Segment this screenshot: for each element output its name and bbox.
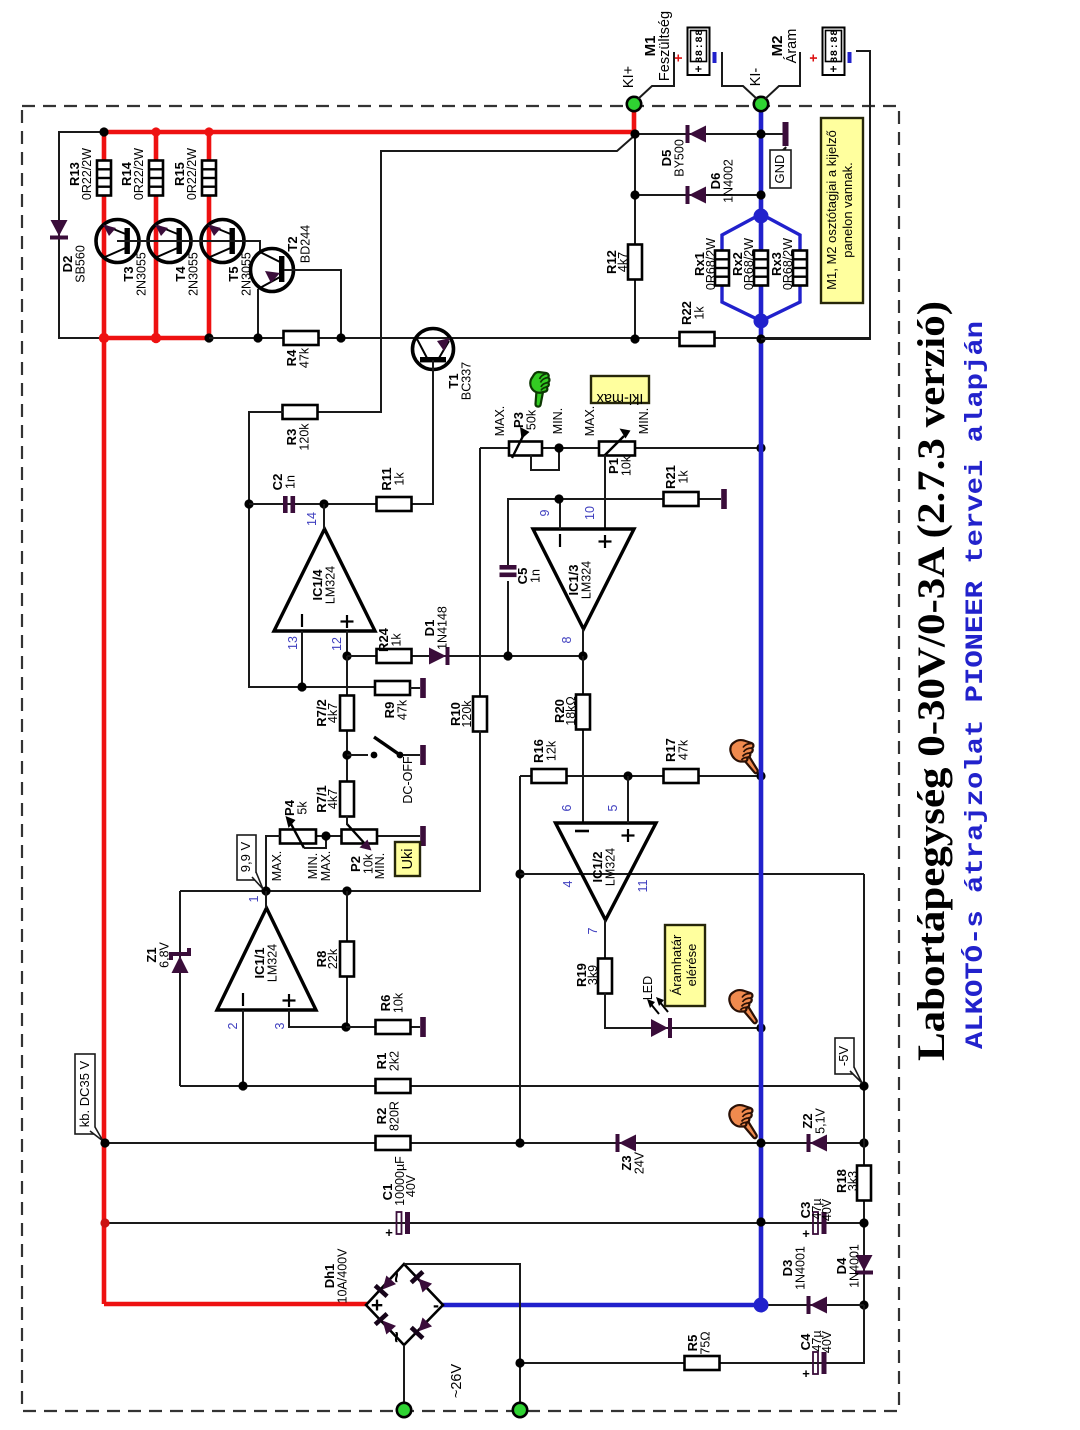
ground stub DC-OFF (420, 745, 426, 765)
svg-text:LM324: LM324 (580, 561, 594, 599)
svg-text:6,8V: 6,8V (158, 941, 172, 967)
op-amp IC1/1 LM324 (217, 908, 316, 1010)
svg-text:6: 6 (560, 804, 574, 811)
wire blue bottom to bridge (442, 1303, 761, 1308)
resistor R12 4k7 (604, 245, 642, 280)
svg-text:Áramhatár: Áramhatár (669, 934, 684, 995)
wire base link T3-T5 to T2 (117, 241, 260, 253)
svg-text:DC-OFF: DC-OFF (401, 756, 415, 804)
wire R1 row (180, 1085, 864, 1087)
svg-text:LM324: LM324 (604, 848, 618, 886)
svg-text:14: 14 (305, 512, 319, 526)
wire D1 row (347, 655, 583, 657)
svg-text:LM324: LM324 (324, 566, 338, 604)
pin 13 (301, 631, 303, 687)
svg-text:1: 1 (247, 895, 261, 902)
wire red column T4 (154, 132, 159, 338)
wire R7 chain (346, 656, 348, 820)
resistor R13 0R22/2W (67, 148, 111, 200)
diode D1 1N4148 (422, 606, 450, 665)
wire black top-left + D2 branch (59, 132, 104, 338)
callout kb. DC35 V (75, 1054, 103, 1141)
svg-text:elérése: elérése (684, 944, 699, 987)
svg-text:LM324: LM324 (266, 944, 280, 982)
meter M1 display (688, 28, 710, 76)
wire C2 row (249, 503, 377, 505)
svg-text:MAX.: MAX. (319, 851, 333, 882)
svg-text:1n: 1n (529, 569, 543, 583)
terminal KI+ (627, 97, 641, 111)
svg-text:4: 4 (561, 880, 575, 887)
svg-text:+: + (802, 1226, 810, 1241)
potentiometer P2 10k (342, 816, 378, 874)
resistor R24 1k (376, 627, 412, 663)
capacitor C1 10000uF 40V (380, 1156, 418, 1240)
wire blue KI- main (759, 104, 764, 1305)
svg-text:+: + (371, 1294, 383, 1317)
svg-text:-: - (433, 1295, 439, 1315)
wire pin1 row (180, 745, 480, 891)
note box M1 M2 osztotagjai (821, 118, 863, 303)
svg-text:2k2: 2k2 (388, 1051, 402, 1071)
ground stub R9 (420, 678, 426, 698)
svg-text:0R68/2W: 0R68/2W (781, 238, 795, 290)
resistor R21 1k (663, 465, 699, 506)
svg-text:5k: 5k (296, 801, 310, 815)
terminal KI- (754, 97, 768, 111)
wire R21 row / pin9 node (508, 499, 721, 567)
potentiometer P1 10k (599, 429, 635, 477)
svg-text:+: + (670, 54, 686, 62)
svg-text:MAX.: MAX. (270, 851, 284, 882)
svg-text:Feszültség: Feszültség (657, 11, 673, 81)
svg-text:panelon vannak.: panelon vannak. (840, 162, 855, 257)
wire D5 row (634, 133, 786, 135)
svg-text:MIN.: MIN. (306, 853, 320, 879)
svg-text:10k: 10k (620, 455, 634, 476)
op-amp IC1/3 LM324 (533, 529, 634, 629)
diode Z2 5,1V (800, 1107, 828, 1152)
svg-text:10A/400V: 10A/400V (336, 1248, 350, 1304)
capacitor C4 47u 40V (798, 1330, 834, 1381)
resistor R8 22k (314, 891, 354, 1027)
wire red top bus (102, 130, 636, 135)
svg-text:10k: 10k (392, 992, 406, 1013)
svg-text:12k: 12k (545, 740, 559, 761)
wire D3 row (761, 1304, 864, 1306)
svg-text:1n: 1n (284, 475, 298, 489)
svg-text:120k: 120k (460, 700, 474, 728)
svg-text:820R: 820R (388, 1101, 402, 1131)
resistor Rx2 0R68/2W (730, 238, 768, 290)
transistor T5 2N3055 (201, 220, 254, 296)
svg-text:3k9: 3k9 (586, 965, 600, 985)
pin 2 (242, 1010, 244, 1086)
wire KI+ to meter M1 (638, 52, 674, 99)
resistor R6 10k (376, 992, 411, 1034)
svg-text:0R68/2W: 0R68/2W (704, 238, 718, 290)
bridge rectifier Dh1 10A/400V (322, 1248, 443, 1345)
wire R16 corner down (519, 776, 521, 1143)
hand orange pointer LED node (729, 990, 756, 1023)
callout GND (770, 147, 791, 188)
wire D6 row (635, 194, 761, 196)
svg-text:12: 12 (330, 637, 344, 651)
pin 12 (346, 631, 348, 656)
capacitor C3 47u 40V (798, 1198, 834, 1241)
meter M2 display (823, 28, 845, 76)
svg-text:1k: 1k (390, 633, 404, 647)
capacitor C5 1n (500, 565, 543, 656)
potentiometer P4 5k (280, 799, 326, 848)
pin 7 (604, 920, 606, 959)
svg-text:120k: 120k (298, 423, 312, 451)
svg-text:MIN.: MIN. (551, 408, 565, 434)
svg-text:~26V: ~26V (449, 1364, 465, 1399)
svg-text:9: 9 (538, 509, 552, 516)
diode D5 BY500 (659, 125, 706, 177)
resistor R7/1 4k7 (314, 782, 354, 817)
transistor T2 BD244 (251, 225, 313, 292)
svg-text:3k3: 3k3 (846, 1171, 860, 1191)
svg-text:+: + (385, 1225, 393, 1240)
svg-text:Labortápegység 0-30V/0-3A (2.7: Labortápegység 0-30V/0-3A (2.7.3 verzió) (910, 301, 953, 1061)
pin 9 (559, 499, 561, 529)
terminal AC2 (513, 1403, 527, 1417)
resistor R22 1k (679, 301, 715, 346)
svg-text:88:88: 88:88 (694, 29, 706, 63)
resistor R1 2k2 (374, 1051, 411, 1093)
svg-text:+: + (827, 65, 841, 72)
wire P3-P1 row (480, 447, 761, 449)
svg-text:~: ~ (386, 1271, 408, 1283)
svg-text:Áram: Áram (783, 29, 800, 64)
svg-text:2N3055: 2N3055 (135, 252, 149, 296)
resistor R7/2 4k7 (314, 696, 354, 731)
ground stub R21 (721, 489, 727, 509)
ground stub P2 (420, 826, 426, 846)
svg-text:LED: LED (641, 976, 655, 1000)
svg-text:47k: 47k (298, 347, 312, 368)
hand green pointer (530, 372, 549, 407)
svg-text:40V: 40V (404, 1174, 418, 1197)
note box Aramhatar eларése (665, 925, 705, 1006)
svg-text:0R68/2W: 0R68/2W (742, 238, 756, 290)
wire C1 row (105, 1222, 864, 1224)
wire R2 row (105, 1142, 864, 1144)
pin 1 (265, 891, 267, 908)
svg-text:40V: 40V (820, 1198, 834, 1221)
wire P1 wiper to pin 10 (604, 455, 606, 529)
resistor R3 120k (283, 405, 318, 451)
resistor R4 47k (284, 331, 319, 368)
svg-text:M1, M2 osztótagjai a kijelző: M1, M2 osztótagjai a kijelző (824, 130, 839, 290)
wire red KI+ stub (632, 104, 637, 134)
svg-text:BC337: BC337 (460, 362, 474, 400)
svg-text:88:88: 88:88 (829, 29, 841, 63)
Rx divider diamond blue (722, 214, 761, 252)
svg-text:MIN.: MIN. (373, 853, 387, 879)
wire bus to M2 column (761, 51, 870, 339)
svg-text:40V: 40V (820, 1330, 834, 1353)
svg-text:13: 13 (286, 636, 300, 650)
LED (641, 976, 670, 1038)
terminal AC1 (397, 1403, 411, 1417)
svg-text:SB560: SB560 (74, 245, 88, 283)
pin 3 (289, 1010, 346, 1027)
diode Z3 24V (618, 1134, 647, 1174)
wire T2 base right and down to bus (284, 270, 341, 338)
wire R16-R17 row (520, 775, 761, 777)
svg-text:9,9 V: 9,9 V (238, 841, 253, 872)
pin 14 (323, 504, 325, 529)
resistor R19 3k9 (574, 959, 612, 994)
transistor T4 2N3055 (148, 220, 201, 296)
wire red bottom run to bridge (104, 1302, 368, 1307)
callout 9,9 V (237, 835, 263, 889)
svg-text:0R22/2W: 0R22/2W (80, 148, 94, 200)
svg-text:50k: 50k (525, 409, 539, 430)
wire bridge AC top to right column (404, 1264, 520, 1404)
wire P3 left down to R10 (479, 448, 481, 697)
resistor R16 12k (531, 739, 567, 783)
wire KI+ node column (634, 134, 636, 339)
resistor Rx3 0R68/2W (769, 238, 807, 290)
wire red column T5 (207, 132, 212, 338)
wire -5V column (863, 874, 865, 1363)
resistor R11 1k (377, 467, 412, 511)
wire C4 row (520, 1305, 864, 1363)
node A top bus junctions (99, 127, 108, 136)
wire R9 right to ground stub (410, 687, 420, 689)
svg-text:KI-: KI- (748, 68, 764, 87)
wire M1 to KI- (722, 52, 757, 99)
potentiometer P3 50k (509, 409, 559, 470)
svg-text:5,1V: 5,1V (814, 1107, 828, 1133)
wire bridge AC bottom down (403, 1345, 405, 1404)
svg-text:47k: 47k (396, 699, 410, 720)
wire P-row (266, 835, 280, 837)
op-amp IC1/2 LM324 (556, 823, 657, 920)
svg-text:1k: 1k (693, 306, 707, 320)
svg-text:MIN.: MIN. (637, 408, 651, 434)
svg-text:KI+: KI+ (621, 66, 637, 88)
svg-text:1k: 1k (393, 472, 407, 486)
wire IC1/2 supply row (520, 873, 864, 875)
svg-text:8: 8 (560, 636, 574, 643)
resistor R14 0R22/2W (119, 148, 163, 200)
wire T2 emitter down to bus (257, 289, 259, 338)
svg-text:4k7: 4k7 (326, 703, 340, 723)
svg-text:1k: 1k (677, 470, 691, 484)
svg-text:5: 5 (606, 804, 620, 811)
svg-text:1N4001: 1N4001 (848, 1244, 862, 1288)
svg-text:11: 11 (636, 879, 650, 892)
resistor R10 120k (448, 697, 487, 892)
resistor R20 18k (552, 656, 590, 823)
svg-text:+: + (805, 54, 821, 62)
resistor R5 75ohm (685, 1331, 720, 1370)
resistor R2 820R (374, 1101, 411, 1150)
svg-text:1N4148: 1N4148 (436, 606, 450, 650)
wire red emitter bus (104, 336, 211, 341)
resistor R17 47k (663, 738, 699, 783)
svg-text:2N3055: 2N3055 (187, 252, 201, 296)
resistor R15 0R22/2W (172, 148, 216, 200)
callout -5V (835, 1038, 862, 1083)
svg-text:+: + (692, 65, 706, 72)
wire red column T3 (102, 132, 107, 1304)
svg-text:2: 2 (226, 1022, 240, 1029)
svg-text:3: 3 (273, 1022, 287, 1029)
capacitor C2 1n (270, 474, 298, 513)
svg-text:+: + (802, 1366, 810, 1381)
ground stub D5 (783, 122, 789, 146)
resistor R9 47k (375, 681, 410, 720)
wire feedback from output node to R3 (318, 136, 634, 412)
svg-text:-5V: -5V (836, 1046, 851, 1067)
svg-text:BY500: BY500 (673, 139, 687, 177)
transistor T1 BC337 (413, 329, 474, 401)
hand orange pointer Z3 node (729, 1105, 756, 1138)
wire R3 left to C2 node (249, 412, 376, 687)
resistor R18 3k3 (834, 1166, 871, 1201)
svg-text:BD244: BD244 (299, 225, 313, 263)
svg-text:kb. DC35 V: kb. DC35 V (77, 1060, 92, 1127)
pin 8 (582, 629, 584, 656)
wire main bus horizontal (209, 337, 870, 339)
diode D6 1N4002 (688, 159, 736, 204)
svg-text:24V: 24V (633, 1151, 647, 1174)
svg-text:0R22/2W: 0R22/2W (132, 148, 146, 200)
svg-text:Uki: Uki (400, 849, 416, 870)
svg-text:10: 10 (583, 506, 597, 520)
switch DC-OFF (347, 737, 420, 804)
zener Z1 6,8V (144, 891, 189, 1086)
diode D2 SB560 (50, 220, 88, 283)
diode D4 1N4001 (834, 1244, 873, 1288)
note box Iki-max (591, 376, 649, 406)
svg-text:0R22/2W: 0R22/2W (185, 148, 199, 200)
svg-text:ALKOTÓ-s átrajzolat PIONEER te: ALKOTÓ-s átrajzolat PIONEER tervei alapj… (960, 321, 990, 1049)
svg-text:Iki-max: Iki-max (596, 390, 643, 406)
node B emitter bus junctions (99, 333, 109, 343)
dashed border frame (22, 106, 899, 1411)
op-amp IC1/4 LM324 (274, 529, 375, 631)
pin 5 (627, 776, 629, 823)
svg-text:7: 7 (586, 927, 600, 934)
wire T1 base down to R11 (411, 360, 433, 504)
svg-text:1N4002: 1N4002 (722, 159, 736, 203)
svg-text:~: ~ (386, 1331, 408, 1343)
svg-text:75Ω: 75Ω (699, 1331, 713, 1354)
svg-text:MAX.: MAX. (493, 406, 507, 437)
svg-text:GND: GND (772, 155, 787, 184)
transistor T3 2N3055 (96, 220, 149, 296)
ground stub R6 (420, 1017, 426, 1037)
svg-text:47k: 47k (677, 739, 691, 760)
resistor Rx1 0R68/2W (692, 238, 729, 290)
wire R19 to LED row (605, 993, 761, 1028)
svg-text:22k: 22k (326, 948, 340, 969)
svg-text:MAX.: MAX. (583, 406, 597, 437)
svg-text:4k7: 4k7 (616, 252, 630, 272)
wire R6 row (346, 1026, 420, 1028)
svg-text:1N4001: 1N4001 (794, 1246, 808, 1290)
wire KI- to M2 (765, 52, 800, 99)
hand orange pointer R17 node (730, 740, 757, 773)
diode D3 1N4001 (780, 1246, 827, 1314)
wire P4 left to pin1 row (266, 836, 280, 891)
svg-text:18kΩ: 18kΩ (564, 696, 578, 726)
svg-text:4k7: 4k7 (326, 789, 340, 809)
note box Uki (395, 842, 420, 876)
